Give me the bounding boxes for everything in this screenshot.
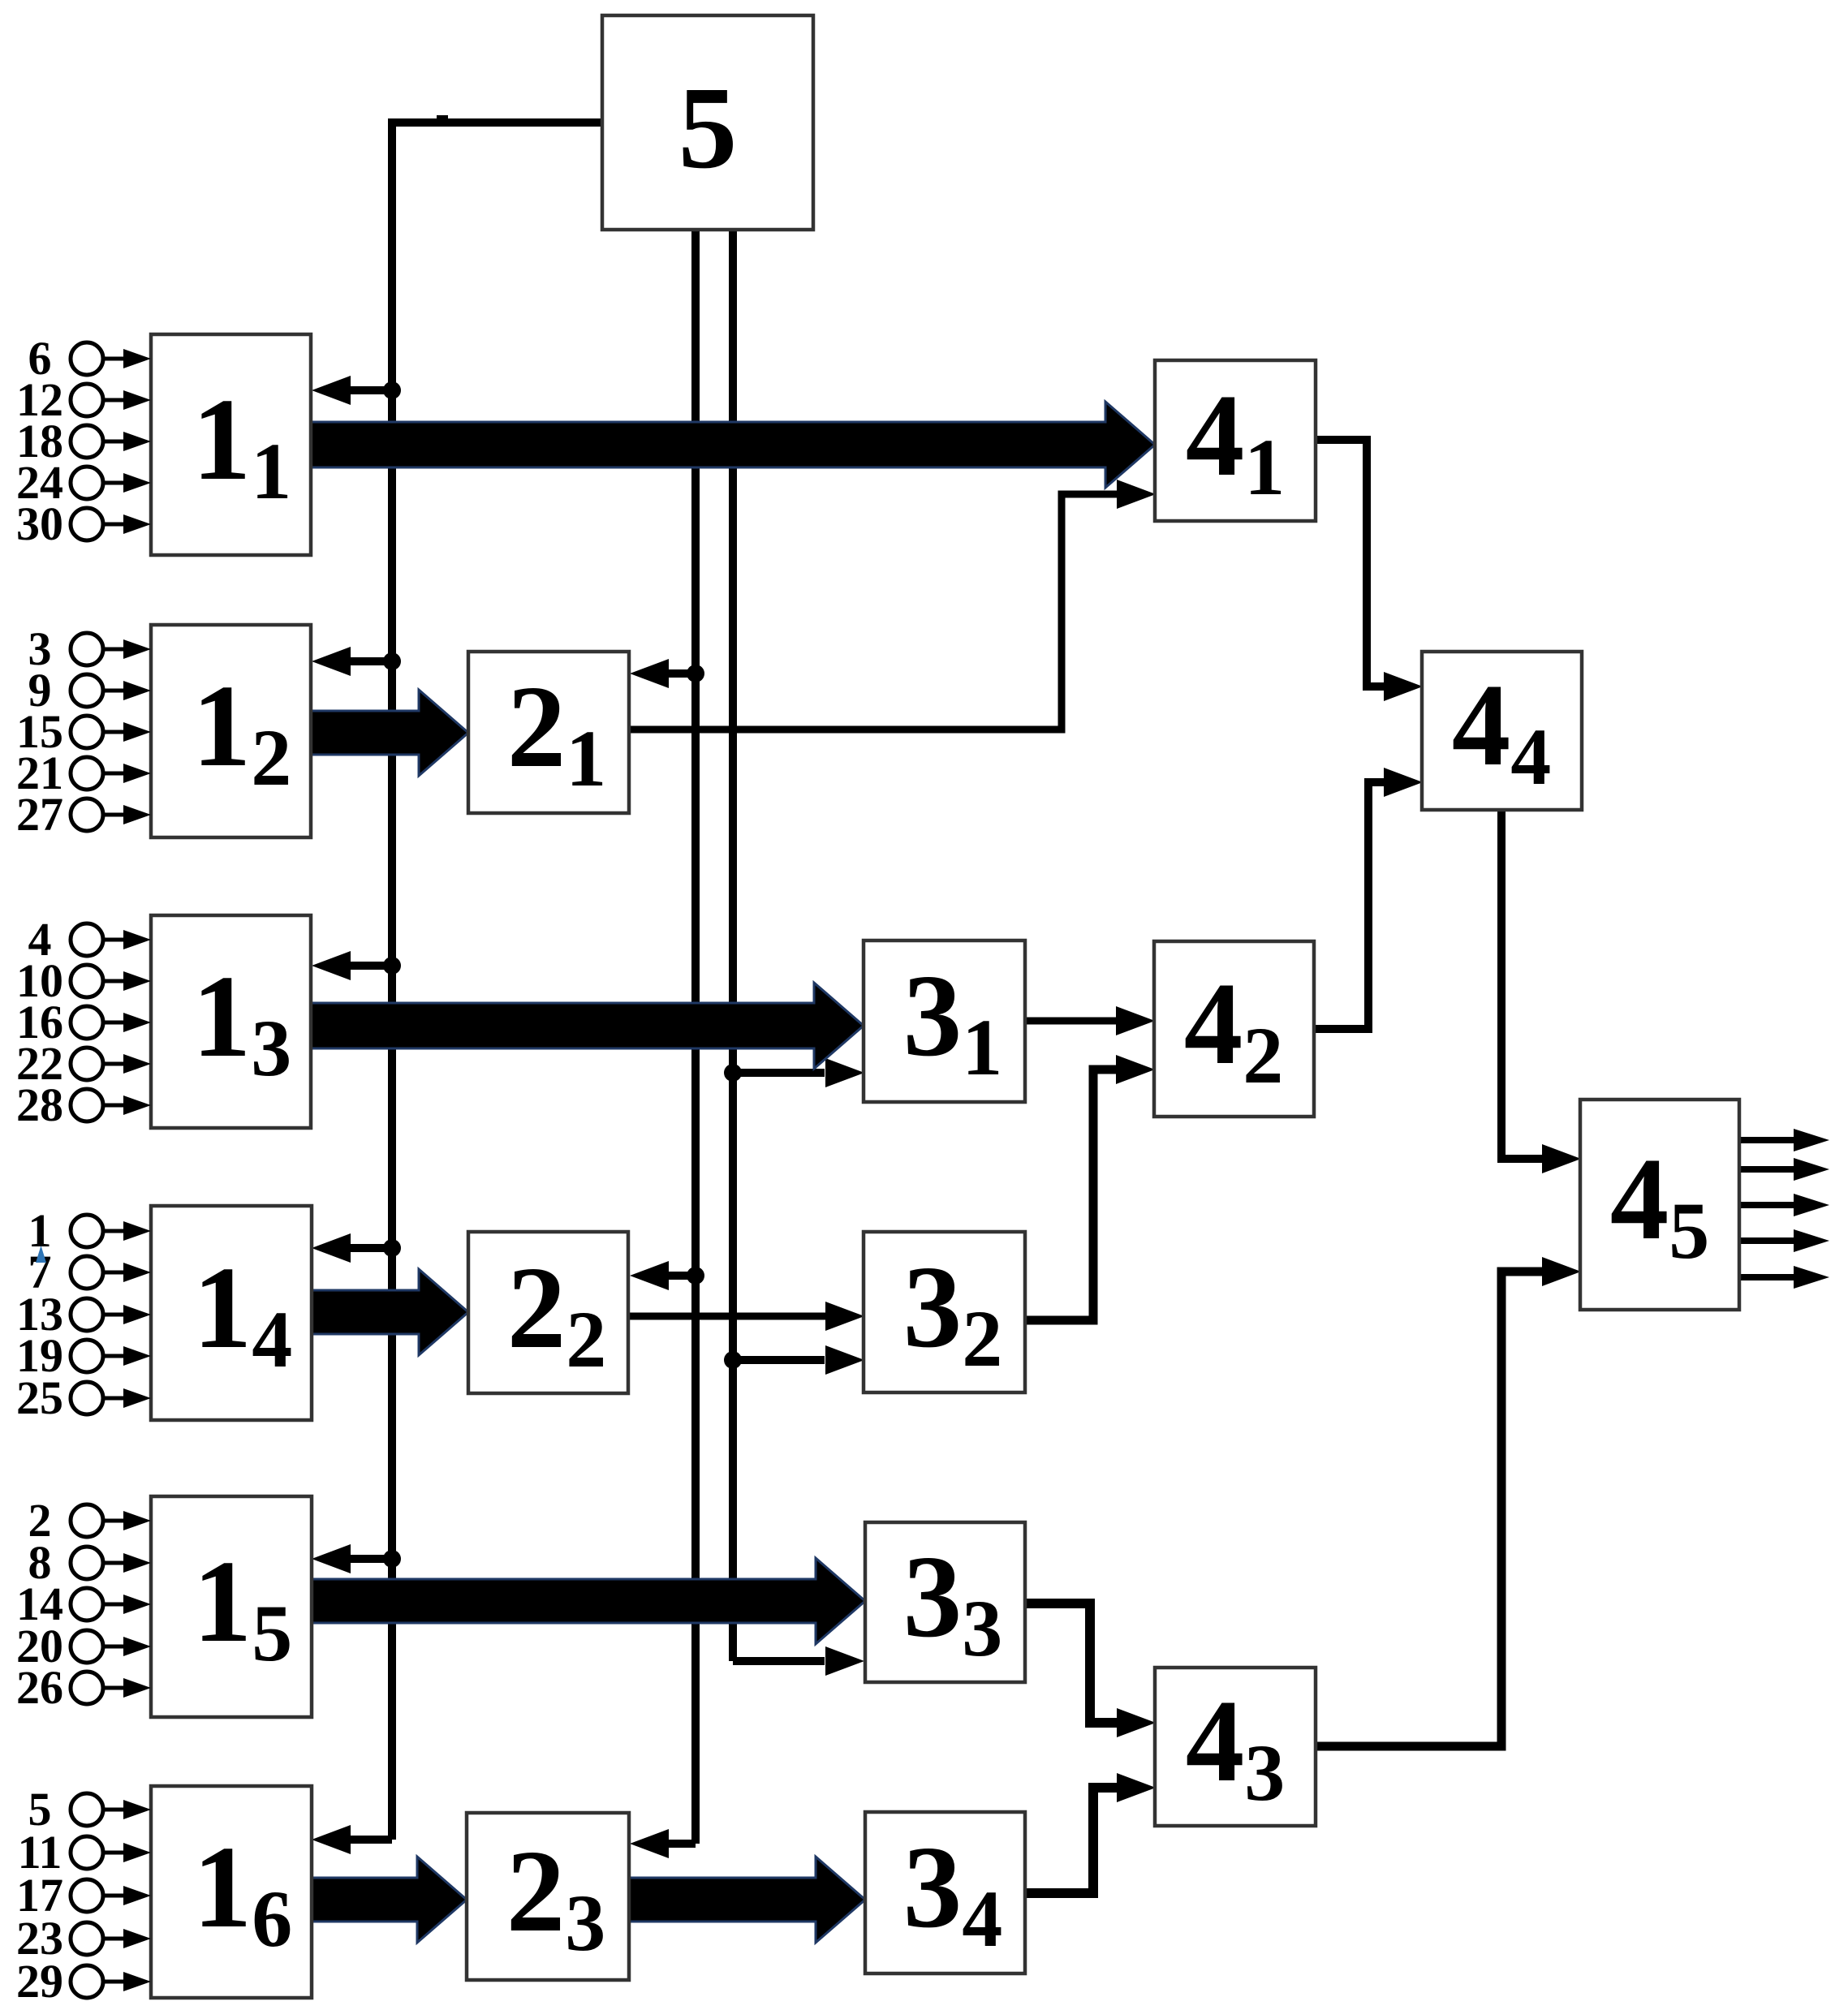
block 4_1	[1155, 360, 1316, 521]
input terminal 14	[16, 1577, 151, 1630]
block 1_6	[151, 1786, 312, 1998]
bus terminal arrow into block 1_6	[351, 1836, 392, 1844]
input terminal 23	[16, 1912, 151, 1965]
wire 4_2 to 4_4	[1314, 782, 1385, 1029]
control stub into block 1_5	[351, 1555, 392, 1563]
wide data arrow 2_3 to 3_4	[629, 1857, 865, 1943]
svg-text:28: 28	[16, 1078, 63, 1131]
wire 4_4 to 4_5	[1501, 810, 1543, 1159]
block 1_5	[151, 1496, 312, 1717]
control stub into block 3_2	[733, 1356, 825, 1364]
output arrow 1 of block 4_5	[1739, 1137, 1795, 1143]
wire 4_3 to 4_5	[1316, 1272, 1543, 1746]
junction dot on right bus at 3_1	[724, 1064, 742, 1082]
input terminal 13	[16, 1288, 151, 1341]
wire 2_1 to 4_1	[629, 494, 1118, 730]
control stub into block 3_1	[733, 1069, 825, 1077]
output arrow 3 of block 4_5	[1739, 1202, 1795, 1208]
junction dot on centre bus at 2_2	[687, 1267, 704, 1285]
block 2_1	[468, 652, 629, 813]
input terminal 16	[16, 996, 151, 1048]
input terminal 10	[16, 954, 151, 1007]
input terminal 22	[16, 1037, 151, 1090]
input terminal 24	[16, 456, 151, 509]
block 3_3	[865, 1522, 1025, 1682]
wide data arrow 1_6 to 2_3	[312, 1857, 467, 1943]
control stub into block 2_2	[668, 1272, 696, 1280]
junction dot on left bus at 1_1	[383, 381, 401, 399]
input terminal 17	[16, 1869, 151, 1922]
input terminal 19	[16, 1329, 151, 1382]
wire 3_4 to 4_3	[1025, 1788, 1118, 1893]
wire from block 5 to left bus	[392, 118, 602, 127]
left control bus (node A)	[388, 118, 396, 1840]
input terminal 21	[16, 747, 151, 799]
blue marker near terminal 7	[36, 1246, 46, 1263]
wire 4_1 to 4_4	[1316, 440, 1385, 686]
block 2_2	[468, 1232, 628, 1393]
junction dot on left bus at 1_5	[383, 1550, 401, 1568]
block 1_2	[151, 625, 311, 837]
junction dot on right bus at 3_2	[724, 1351, 742, 1369]
input terminal 5	[28, 1783, 152, 1836]
input terminal 9	[28, 664, 152, 717]
control stub into block 2_1	[668, 669, 696, 678]
block 4_5	[1580, 1100, 1739, 1310]
junction dot on centre bus at 2_1	[687, 665, 704, 682]
input terminal 30	[16, 497, 151, 550]
output arrow 5 of block 4_5	[1739, 1274, 1795, 1280]
input terminal 7	[28, 1246, 152, 1298]
output arrow 4 of block 4_5	[1739, 1237, 1795, 1244]
input terminal 2	[28, 1494, 152, 1547]
input terminal 12	[16, 373, 151, 426]
input terminal 29	[16, 1955, 151, 2008]
bus terminal arrow into block 2_3	[668, 1840, 696, 1848]
junction dot on left bus at 1_3	[383, 957, 401, 975]
input terminal 3	[28, 622, 152, 675]
input terminal 27	[16, 788, 151, 841]
block 3_1	[864, 940, 1025, 1102]
wire 2_2 to 3_2	[628, 1313, 826, 1320]
input terminal 18	[16, 415, 151, 467]
input terminal 1	[28, 1204, 152, 1257]
wire 3_3 to 4_3	[1025, 1603, 1118, 1723]
wire 3_2 to 4_2	[1025, 1070, 1117, 1320]
centre control bus from block 5 (node B)	[691, 230, 700, 1844]
svg-text:29: 29	[16, 1955, 63, 2008]
wide data arrow 1_4 to 2_2	[312, 1269, 468, 1355]
input terminal 4	[28, 913, 152, 966]
input terminal 8	[28, 1536, 152, 1589]
input terminal 26	[16, 1661, 151, 1714]
block 4_3	[1155, 1668, 1316, 1826]
input terminal 28	[16, 1078, 151, 1131]
output arrow 2 of block 4_5	[1739, 1166, 1795, 1173]
control stub into block 1_1	[351, 386, 392, 394]
block 1_4	[151, 1206, 312, 1420]
bus terminal arrow into block 3_3	[733, 1657, 825, 1665]
right control bus from block 5 (node C)	[729, 230, 737, 1661]
junction dot on left bus at 1_4	[383, 1239, 401, 1257]
block 3_4	[865, 1812, 1025, 1973]
block 2_3	[467, 1813, 629, 1980]
input terminal 11	[18, 1826, 151, 1879]
svg-text:5: 5	[678, 63, 738, 193]
block 1_3	[151, 915, 311, 1128]
block 1_1	[151, 334, 311, 555]
wide data arrow 1_2 to 2_1	[311, 690, 468, 776]
block 4_4	[1422, 652, 1582, 810]
svg-text:30: 30	[16, 497, 63, 550]
svg-text:25: 25	[16, 1371, 63, 1424]
control stub into block 1_3	[351, 962, 392, 970]
wire 3_1 to 4_2	[1025, 1018, 1117, 1025]
input terminal 6	[28, 332, 152, 385]
input terminal 25	[16, 1371, 151, 1424]
input terminal 15	[16, 705, 151, 758]
block 5	[602, 15, 813, 230]
junction dot on left bus at 1_2	[383, 652, 401, 670]
junction tick on wire near block 5	[437, 115, 448, 126]
control stub into block 1_4	[351, 1244, 392, 1252]
wide data arrow 1_5 to 3_3	[312, 1558, 865, 1644]
wide data arrow 1_3 to 3_1	[311, 983, 864, 1069]
control stub into block 1_2	[351, 657, 392, 665]
svg-text:27: 27	[16, 788, 63, 841]
wide data arrow 1_1 to 4_1	[311, 402, 1155, 488]
svg-text:26: 26	[16, 1661, 63, 1714]
input terminal 20	[16, 1620, 151, 1672]
block 4_2	[1154, 941, 1314, 1117]
block 3_2	[864, 1232, 1025, 1392]
